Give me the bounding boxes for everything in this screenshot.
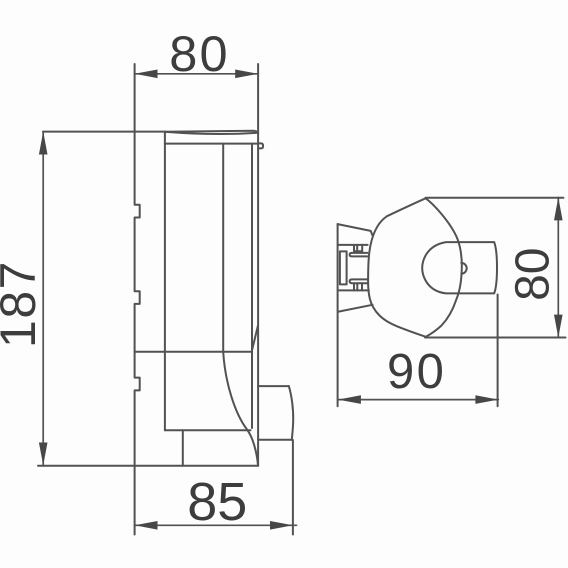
top clip pill (350, 253, 368, 257)
body left edge (164, 132, 166, 431)
extension/top line to wall plate (43, 131, 165, 133)
bottom clip teeth (354, 283, 362, 290)
dim 80 right: line (557, 198, 559, 338)
dim 85: line (135, 524, 297, 526)
bottom line (38, 465, 258, 467)
dim 80 top: line (135, 73, 259, 75)
arrow 90 right (475, 395, 498, 404)
spout piece bottom (258, 439, 292, 441)
chamber bottom line (165, 429, 251, 431)
arrow 187 bottom (39, 443, 48, 466)
arrow 90 left (338, 395, 361, 404)
arrow 80 right bottom (554, 315, 563, 338)
inner vertical (222, 144, 224, 352)
cap top rim lower curve (165, 132, 257, 134)
arrow 80 top right (235, 70, 258, 79)
dim 90: line (338, 399, 498, 401)
spout piece right curved edge (289, 386, 293, 440)
inner rectangle (340, 251, 347, 284)
dim 80 top: extension left (134, 64, 136, 132)
bracket bottom slope (339, 305, 373, 312)
dim 80 top: extension right (257, 64, 259, 133)
svg-text:80: 80 (169, 25, 230, 82)
svg-text:187: 187 (0, 260, 46, 348)
body outline (368, 198, 462, 336)
front edge line B (257, 133, 259, 466)
dim 80 right: extension bottom (425, 337, 566, 339)
wedge diagonal (252, 325, 258, 350)
dim 85: extension right (292, 440, 294, 535)
spout curve (223, 352, 258, 466)
arrow 85 left (135, 521, 158, 530)
bracket top slope (338, 224, 373, 235)
cap top rim upper line (165, 131, 258, 133)
base step vertical (182, 430, 184, 466)
wall plate left edge with notches (135, 132, 140, 466)
top clip teeth (354, 245, 362, 251)
svg-text:80: 80 (506, 248, 559, 301)
dim 187: line (42, 132, 44, 466)
top clip rail (338, 244, 368, 246)
bottom clip rail (338, 289, 369, 291)
bottom clip pill (350, 279, 368, 283)
hook tab top right (258, 143, 263, 148)
cap bottom line (165, 143, 258, 145)
dim 85: extension left (134, 466, 136, 535)
spout piece top (258, 385, 289, 387)
svg-text:85: 85 (187, 472, 247, 532)
front edge line A (251, 144, 253, 428)
pump head: bell + cylinder (422, 242, 497, 293)
dim 90: extension right (497, 295, 499, 407)
dim 80 right: extension top (426, 197, 564, 199)
svg-text:90: 90 (387, 345, 446, 399)
section line (135, 351, 252, 353)
bracket wall line (337, 224, 339, 406)
arrow 80 right top (554, 198, 563, 221)
nozzle bump (461, 263, 466, 274)
arrow 80 top left (135, 70, 158, 79)
arrow 187 top (39, 132, 48, 155)
arrow 85 right (270, 521, 293, 530)
